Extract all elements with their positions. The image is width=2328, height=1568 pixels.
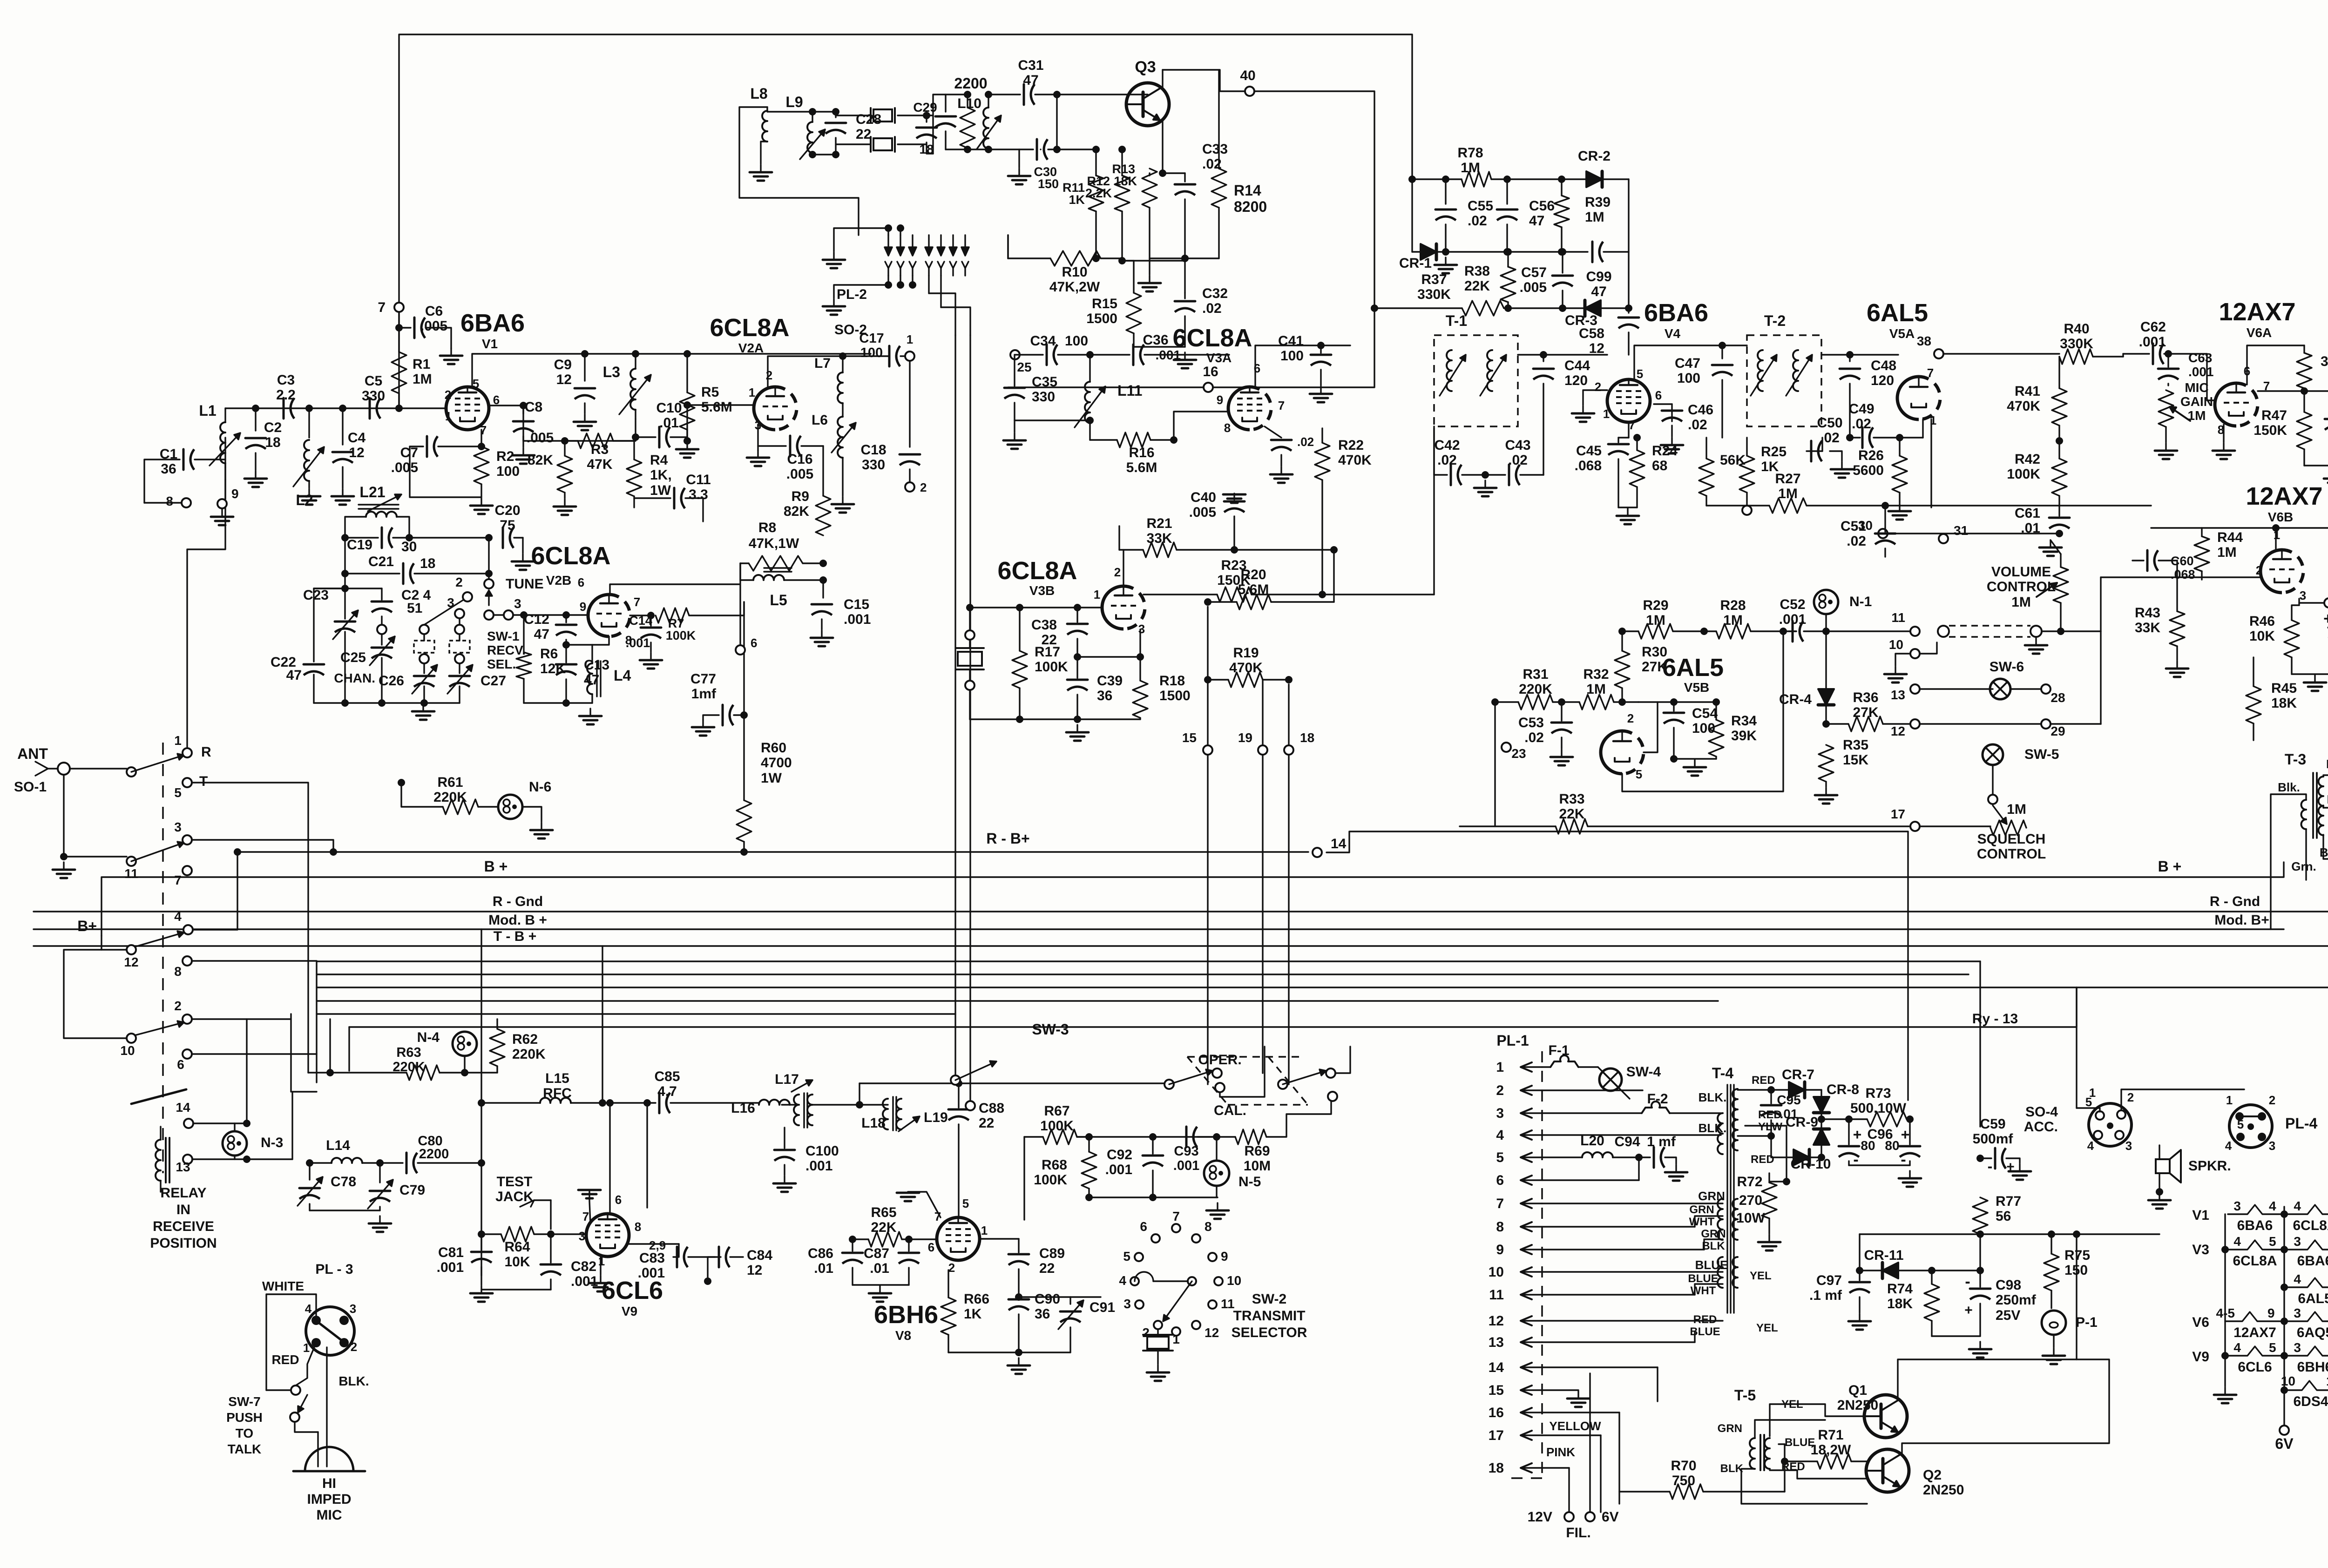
svg-text:.005: .005 <box>786 466 813 482</box>
svg-text:R39: R39 <box>1585 195 1611 210</box>
svg-text:Q3: Q3 <box>1135 58 1156 76</box>
capacitor C58 12 <box>1579 308 1639 356</box>
svg-text:R40: R40 <box>2064 321 2089 337</box>
capacitor C53 .02 <box>1518 702 1573 765</box>
V6A pin labels <box>2218 364 2270 437</box>
wire PL-1 pin11 blue wht <box>1542 1272 1723 1297</box>
svg-text:C32: C32 <box>1202 286 1228 301</box>
svg-text:PL-4: PL-4 <box>2285 1115 2318 1132</box>
svg-text:.01: .01 <box>659 415 679 431</box>
svg-text:3: 3 <box>1138 622 1145 636</box>
svg-text:RED: RED <box>1693 1313 1717 1326</box>
svg-text:9: 9 <box>2267 1306 2275 1320</box>
svg-text:6BH6: 6BH6 <box>2297 1359 2328 1375</box>
resistor R69 10M <box>1217 1102 1331 1174</box>
svg-text:51: 51 <box>407 601 422 616</box>
svg-text:L1: L1 <box>199 402 216 419</box>
svg-text:12: 12 <box>556 372 572 387</box>
svg-text:Ry - 13: Ry - 13 <box>1972 1011 2018 1027</box>
svg-text:3: 3 <box>514 596 521 611</box>
wire PL-1 pin4 blk <box>1542 1121 1726 1135</box>
capacitor C43 .02 <box>1474 438 1543 496</box>
resistor R78 1M <box>1408 145 1565 187</box>
svg-text:7: 7 <box>1927 366 1934 380</box>
resistor R45 18K <box>2246 657 2297 740</box>
switch wafer dashed line <box>162 743 164 1173</box>
T-3 lead labels <box>2278 757 2328 873</box>
svg-text:R65: R65 <box>871 1205 896 1220</box>
wire T-3 Red lead <box>2323 805 2328 808</box>
svg-text:33K: 33K <box>2135 620 2160 635</box>
wire vertical to C80 node <box>480 929 482 1276</box>
svg-text:12AX7: 12AX7 <box>2233 1325 2276 1340</box>
capacitor C81 .001 <box>437 1234 493 1302</box>
svg-text:T-1: T-1 <box>1446 312 1467 329</box>
terminal 23 <box>1495 702 1526 826</box>
svg-text:R25: R25 <box>1761 444 1787 460</box>
svg-text:C48: C48 <box>1871 358 1896 373</box>
svg-text:T-2: T-2 <box>1764 312 1786 329</box>
variable capacitor C23 <box>303 588 358 703</box>
resistor R17 100K <box>1012 608 1068 719</box>
svg-text:56: 56 <box>1996 1209 2011 1224</box>
svg-text:L2: L2 <box>296 492 313 508</box>
resistor R34 39K <box>1709 698 1757 759</box>
capacitor C6 .005 <box>399 304 462 364</box>
svg-text:6: 6 <box>928 1240 934 1254</box>
svg-text:L19: L19 <box>924 1110 948 1125</box>
wire V6B plate up <box>2202 524 2328 549</box>
capacitor C95 .01 <box>1761 1090 1801 1140</box>
svg-text:SO-4: SO-4 <box>2025 1104 2058 1120</box>
svg-text:6: 6 <box>751 636 757 650</box>
svg-text:R32: R32 <box>1583 667 1609 682</box>
terminal 12 <box>1891 719 2101 738</box>
svg-text:22: 22 <box>1042 632 1057 648</box>
svg-text:CONTROL: CONTROL <box>1987 579 2056 595</box>
svg-text:5: 5 <box>1637 367 1643 381</box>
resistor R47 150K <box>2254 408 2312 466</box>
microphone HI IMPED MIC <box>293 1447 365 1523</box>
diode CR-7 <box>1738 1067 1821 1098</box>
svg-text:V2B: V2B <box>546 573 571 588</box>
svg-text:18,2W: 18,2W <box>1811 1442 1851 1458</box>
svg-text:R21: R21 <box>1146 516 1172 531</box>
svg-text:+: + <box>2006 1159 2015 1175</box>
fuse F-1 <box>1542 1043 1598 1067</box>
switch SW-3 <box>951 1021 1069 1110</box>
svg-text:1: 1 <box>2089 1086 2096 1100</box>
svg-text:C100: C100 <box>805 1143 839 1159</box>
svg-text:.068: .068 <box>2171 568 2195 581</box>
svg-text:IMPED: IMPED <box>307 1492 351 1507</box>
svg-text:C11: C11 <box>686 472 711 487</box>
svg-text:C97: C97 <box>1816 1273 1842 1288</box>
terminal 14 on R-B+ <box>1313 836 1347 857</box>
crystal V3B <box>956 608 984 719</box>
V1 pin labels <box>445 377 500 437</box>
capacitor C63 .001 <box>2158 351 2214 385</box>
svg-text:2: 2 <box>455 575 463 589</box>
svg-text:V5A: V5A <box>1889 326 1915 341</box>
resistor R66 1K <box>941 1270 1019 1352</box>
svg-text:PL - 3: PL - 3 <box>315 1262 353 1277</box>
svg-text:3: 3 <box>2269 1139 2275 1153</box>
SW-2 label <box>1232 1291 1307 1340</box>
svg-text:5.6M: 5.6M <box>701 399 732 415</box>
svg-text:R43: R43 <box>2135 605 2160 621</box>
tube V6B 12AX7 <box>2246 482 2322 593</box>
svg-text:N-3: N-3 <box>261 1135 283 1150</box>
capacitor C89 22 <box>980 1239 1065 1301</box>
wire T-3 Blk lead <box>2271 794 2306 929</box>
svg-text:R5: R5 <box>701 385 719 400</box>
svg-text:5: 5 <box>2269 1340 2276 1355</box>
capacitor C39 36 <box>1067 657 1123 719</box>
svg-text:R9: R9 <box>792 489 809 504</box>
antenna connector SO-1 <box>14 745 70 795</box>
wire N-4 riser <box>329 1019 331 1073</box>
wire PL-1 pin6 <box>1542 1157 1639 1180</box>
wire OPER line from driver <box>859 1080 1169 1105</box>
svg-text:5.6M: 5.6M <box>1126 460 1157 475</box>
svg-text:7: 7 <box>634 595 640 609</box>
svg-text:R69: R69 <box>1244 1143 1270 1159</box>
svg-text:V4: V4 <box>1665 326 1681 341</box>
svg-text:WHITE: WHITE <box>262 1279 304 1293</box>
svg-text:80: 80 <box>1885 1138 1899 1153</box>
svg-text:C60: C60 <box>2171 554 2194 568</box>
resistor R75 150 <box>2044 1230 2090 1308</box>
svg-text:1M: 1M <box>1723 613 1743 628</box>
wire Q3 emitter down <box>1159 120 1166 177</box>
svg-text:10K: 10K <box>2249 629 2275 644</box>
svg-text:2N250: 2N250 <box>1837 1398 1878 1413</box>
capacitor C50 .02 <box>1807 415 1853 478</box>
V9 pin labels <box>579 1193 666 1268</box>
wire V1 grid line <box>225 405 446 412</box>
inductor L11 tuned <box>1075 355 1142 440</box>
svg-text:9: 9 <box>1221 1249 1228 1264</box>
svg-text:6: 6 <box>1655 388 1662 402</box>
wire V9 pin6 up <box>606 1099 614 1214</box>
svg-text:18K: 18K <box>1887 1296 1913 1311</box>
resistor R30 27K <box>1615 631 1667 706</box>
tube V5A 6AL5 <box>1867 299 1940 419</box>
svg-text:C61: C61 <box>2015 506 2040 521</box>
V5B pin labels <box>1627 711 1642 781</box>
svg-text:C91: C91 <box>1090 1300 1115 1315</box>
tube table row V3 6CL8A <box>2192 1234 2288 1269</box>
svg-text:1: 1 <box>174 733 182 748</box>
wire Q3 collector to 40 <box>1163 70 1245 91</box>
svg-text:18: 18 <box>265 435 280 450</box>
svg-text:39K: 39K <box>1731 728 1757 743</box>
crystal SW-2 <box>1143 1330 1173 1381</box>
svg-text:R42: R42 <box>2015 452 2040 467</box>
svg-text:C36: C36 <box>1143 332 1168 348</box>
svg-text:C92: C92 <box>1107 1147 1132 1162</box>
wire bus line 2178 <box>317 1013 955 1014</box>
terminal 31 <box>1939 523 1968 543</box>
svg-text:Mod. B +: Mod. B + <box>488 912 547 928</box>
svg-text:10: 10 <box>1227 1273 1241 1288</box>
svg-text:330: 330 <box>1032 389 1055 405</box>
svg-text:C79: C79 <box>399 1183 425 1198</box>
svg-text:R22: R22 <box>1338 438 1364 453</box>
svg-text:6BA6: 6BA6 <box>1644 299 1708 327</box>
capacitor C82 .001 <box>481 1234 598 1290</box>
svg-text:C49: C49 <box>1848 401 1874 417</box>
svg-text:12AX7: 12AX7 <box>2246 482 2322 510</box>
svg-text:.02: .02 <box>1437 453 1457 468</box>
svg-text:CHAN.: CHAN. <box>334 671 375 685</box>
capacitor C24 51 <box>314 588 431 634</box>
svg-text:B +: B + <box>484 858 508 875</box>
svg-text:R1: R1 <box>413 357 430 372</box>
svg-text:2: 2 <box>2256 563 2262 577</box>
transformer T-3 <box>2285 751 2323 838</box>
V2B pin labels <box>578 575 640 647</box>
capacitor C19 30 <box>345 527 493 554</box>
svg-text:SW-4: SW-4 <box>1626 1064 1661 1080</box>
svg-text:47: 47 <box>286 668 302 683</box>
svg-text:8: 8 <box>1224 421 1231 435</box>
svg-text:2: 2 <box>445 388 451 402</box>
resistor R46 10K <box>2249 599 2299 674</box>
wire volume wiper to V6B <box>2061 631 2101 724</box>
svg-text:13: 13 <box>176 1160 190 1174</box>
svg-text:10: 10 <box>1889 637 1903 652</box>
svg-text:C85: C85 <box>654 1069 680 1084</box>
capacitor C7 .005 <box>391 436 485 497</box>
capacitor C60 .068 <box>2132 550 2195 581</box>
svg-text:.02: .02 <box>1852 416 1871 432</box>
svg-text:SW-2: SW-2 <box>1252 1291 1286 1307</box>
capacitor C5 330 <box>362 373 385 419</box>
svg-text:C51: C51 <box>1841 519 1866 534</box>
svg-text:1M: 1M <box>1646 613 1665 628</box>
svg-text:L17: L17 <box>775 1072 799 1087</box>
wire T-B+ bus <box>34 694 2328 946</box>
svg-text:47K: 47K <box>587 457 612 472</box>
wire PL-1 pin12 <box>1542 1320 1723 1321</box>
svg-text:R - Gnd: R - Gnd <box>493 894 543 909</box>
svg-text:38: 38 <box>1917 334 1931 348</box>
svg-text:4: 4 <box>2225 1139 2232 1153</box>
resistor R15 1500 <box>1086 261 1141 347</box>
resistor R6 12K <box>516 615 566 703</box>
svg-text:2: 2 <box>920 480 927 494</box>
svg-text:C39: C39 <box>1097 673 1123 689</box>
wire channel bottom rail <box>314 699 460 720</box>
wire mic cable <box>318 1347 369 1467</box>
resistor R21 33K <box>1119 516 1338 557</box>
svg-text:R44: R44 <box>2217 530 2243 545</box>
svg-text:11: 11 <box>1221 1297 1235 1311</box>
resistor R14 8200 <box>1211 70 1267 258</box>
resistor R64 10K <box>478 1227 555 1270</box>
svg-text:C43: C43 <box>1505 438 1530 453</box>
svg-text:C45: C45 <box>1576 443 1602 459</box>
svg-text:-: - <box>1901 1151 1906 1169</box>
wire V1 cathode R2 <box>480 430 482 446</box>
svg-text:PINK: PINK <box>1546 1445 1575 1459</box>
wire R16 to V3A cathode <box>1174 412 1229 440</box>
capacitor C36 .001 <box>1133 332 1229 365</box>
terminal 7 top of V1 <box>378 300 404 315</box>
svg-text:75: 75 <box>500 518 515 533</box>
capacitor C15 .001 <box>811 580 871 646</box>
svg-text:100K: 100K <box>1034 1172 1067 1188</box>
capacitor C17 100 <box>859 331 914 366</box>
wire bus line 2150 <box>317 1000 1718 1001</box>
wire PL-1 pin2 <box>1542 1089 1643 1091</box>
resistor R13 18K <box>1112 162 1157 258</box>
wire R21 node to V3B plate <box>1123 550 1124 586</box>
svg-text:C81: C81 <box>438 1245 464 1260</box>
tube V2B 6CL8A <box>531 542 630 636</box>
terminal 10 <box>1884 637 1937 683</box>
wire SW-5 drop terminal 29 <box>2041 719 2101 738</box>
wire channel left rail <box>314 538 349 662</box>
terminal 27 <box>2299 589 2328 608</box>
svg-text:3: 3 <box>447 595 454 610</box>
wire SO-4 feeds <box>2077 1089 2244 1112</box>
capacitor C44 120 <box>1533 355 1590 475</box>
svg-text:2N250: 2N250 <box>1923 1482 1964 1498</box>
inductor L10 tuned <box>957 91 1001 153</box>
neon N-1 <box>1814 590 1872 635</box>
wire Q3 emitter rail <box>1138 255 1219 291</box>
capacitor C93 .001 <box>1173 1127 1220 1173</box>
wire PL-1 pin15 gnd <box>1542 1390 1590 1407</box>
crystal channel A C26 <box>379 575 472 703</box>
svg-text:8: 8 <box>635 1220 641 1234</box>
capacitor C49 .02 <box>1848 401 1903 448</box>
tube table row V8 6BH6 <box>2288 1340 2328 1375</box>
transistor Q3 <box>1126 58 1169 126</box>
tube table row V10 6DS4 <box>2281 1374 2328 1409</box>
wire C80 junction riser <box>646 1103 648 1208</box>
svg-text:3: 3 <box>1496 1106 1504 1121</box>
relay terminal 13 <box>176 1155 250 1174</box>
svg-text:23: 23 <box>1511 746 1526 761</box>
svg-text:R29: R29 <box>1643 598 1668 613</box>
svg-text:.001: .001 <box>1779 612 1806 627</box>
SW-1 RECV SEL label <box>487 629 526 671</box>
tube V4 6BA6 <box>1607 299 1708 422</box>
svg-text:2: 2 <box>2269 1093 2275 1107</box>
capacitor C77 1mf <box>690 671 744 736</box>
svg-text:.01: .01 <box>814 1261 833 1276</box>
svg-text:1M: 1M <box>2011 595 2031 610</box>
svg-text:R24: R24 <box>1652 443 1678 459</box>
pilot lamp P-1 <box>2042 1311 2098 1364</box>
inductor L1 <box>199 402 240 467</box>
svg-text:3: 3 <box>2294 1306 2301 1320</box>
svg-text:6: 6 <box>1140 1219 1147 1234</box>
T-4 lead labels <box>1750 1074 1782 1334</box>
wire bus line 2093 <box>317 973 1969 975</box>
tube V3B 6CL8A <box>997 557 1145 629</box>
svg-text:12: 12 <box>1489 1313 1504 1329</box>
svg-text:ANT: ANT <box>17 745 48 762</box>
wire V6A plate line <box>2247 345 2304 385</box>
neon N-6 <box>498 779 553 838</box>
svg-text:1W: 1W <box>761 770 782 786</box>
svg-text:22: 22 <box>1039 1261 1055 1276</box>
svg-text:R31: R31 <box>1523 667 1548 682</box>
svg-text:C98: C98 <box>1996 1277 2021 1293</box>
svg-text:2: 2 <box>1142 1325 1150 1340</box>
svg-text:C26: C26 <box>379 673 404 689</box>
svg-text:BLUE: BLUE <box>1695 1258 1728 1272</box>
svg-text:V2A: V2A <box>738 341 764 355</box>
wire Ry-13 bus <box>349 987 2077 1027</box>
svg-text:SW-6: SW-6 <box>1990 659 2024 675</box>
wire vertical T-B+ to C59 <box>1979 961 1981 1127</box>
resistor R77 56 <box>1973 1194 2021 1271</box>
svg-text:17: 17 <box>1489 1428 1504 1443</box>
svg-text:220K: 220K <box>512 1047 546 1062</box>
svg-text:R19: R19 <box>1233 645 1259 661</box>
svg-text:10M: 10M <box>1244 1158 1271 1174</box>
svg-text:7: 7 <box>174 873 182 887</box>
svg-text:C82: C82 <box>571 1259 596 1274</box>
svg-text:8: 8 <box>166 494 173 508</box>
wire C54 R34 gnd <box>1658 702 1716 776</box>
svg-text:N-5: N-5 <box>1238 1174 1261 1190</box>
svg-text:2: 2 <box>174 999 182 1013</box>
svg-text:B+: B+ <box>77 918 97 934</box>
transistor Q1 2N250 <box>1837 1383 1907 1438</box>
resistor R7 100K <box>656 602 744 642</box>
resistor R12 2.2K <box>1085 146 1130 264</box>
squelch pot 1M <box>1977 802 2046 862</box>
svg-text:82K: 82K <box>528 453 553 468</box>
terminal 3 grid <box>494 596 589 620</box>
wire R10 to PL-2 column <box>1007 235 1008 258</box>
svg-text:P-1: P-1 <box>2076 1315 2098 1330</box>
svg-text:R61: R61 <box>437 775 463 790</box>
V5A pin labels <box>1927 366 1936 427</box>
svg-text:5.6M: 5.6M <box>1238 582 1269 597</box>
svg-text:+: + <box>1964 1303 1973 1318</box>
svg-text:6CL8A: 6CL8A <box>997 557 1077 585</box>
wire vertical to SO-4 <box>2076 987 2077 1108</box>
svg-text:150: 150 <box>1038 177 1059 191</box>
tube V8 6BH6 <box>874 1217 980 1343</box>
svg-text:1M: 1M <box>1586 682 1606 697</box>
svg-text:C9: C9 <box>554 357 572 372</box>
svg-text:1M: 1M <box>2188 408 2206 423</box>
svg-text:R3: R3 <box>591 442 609 457</box>
svg-text:R66: R66 <box>964 1291 989 1307</box>
svg-text:7: 7 <box>1629 418 1635 432</box>
svg-text:C33: C33 <box>1202 142 1228 157</box>
svg-text:3: 3 <box>174 820 182 834</box>
wire C11 feed <box>702 498 704 521</box>
svg-text:7: 7 <box>378 300 386 315</box>
svg-text:14: 14 <box>1489 1360 1504 1375</box>
svg-text:R14: R14 <box>1234 182 1261 199</box>
wire B+ switch stub <box>77 918 97 934</box>
svg-text:C84: C84 <box>747 1248 772 1263</box>
capacitor C98 250mf 25V <box>1932 1271 2037 1358</box>
svg-text:T - B +: T - B + <box>494 929 537 944</box>
wire vertical SW-3 feeds <box>955 987 970 1103</box>
